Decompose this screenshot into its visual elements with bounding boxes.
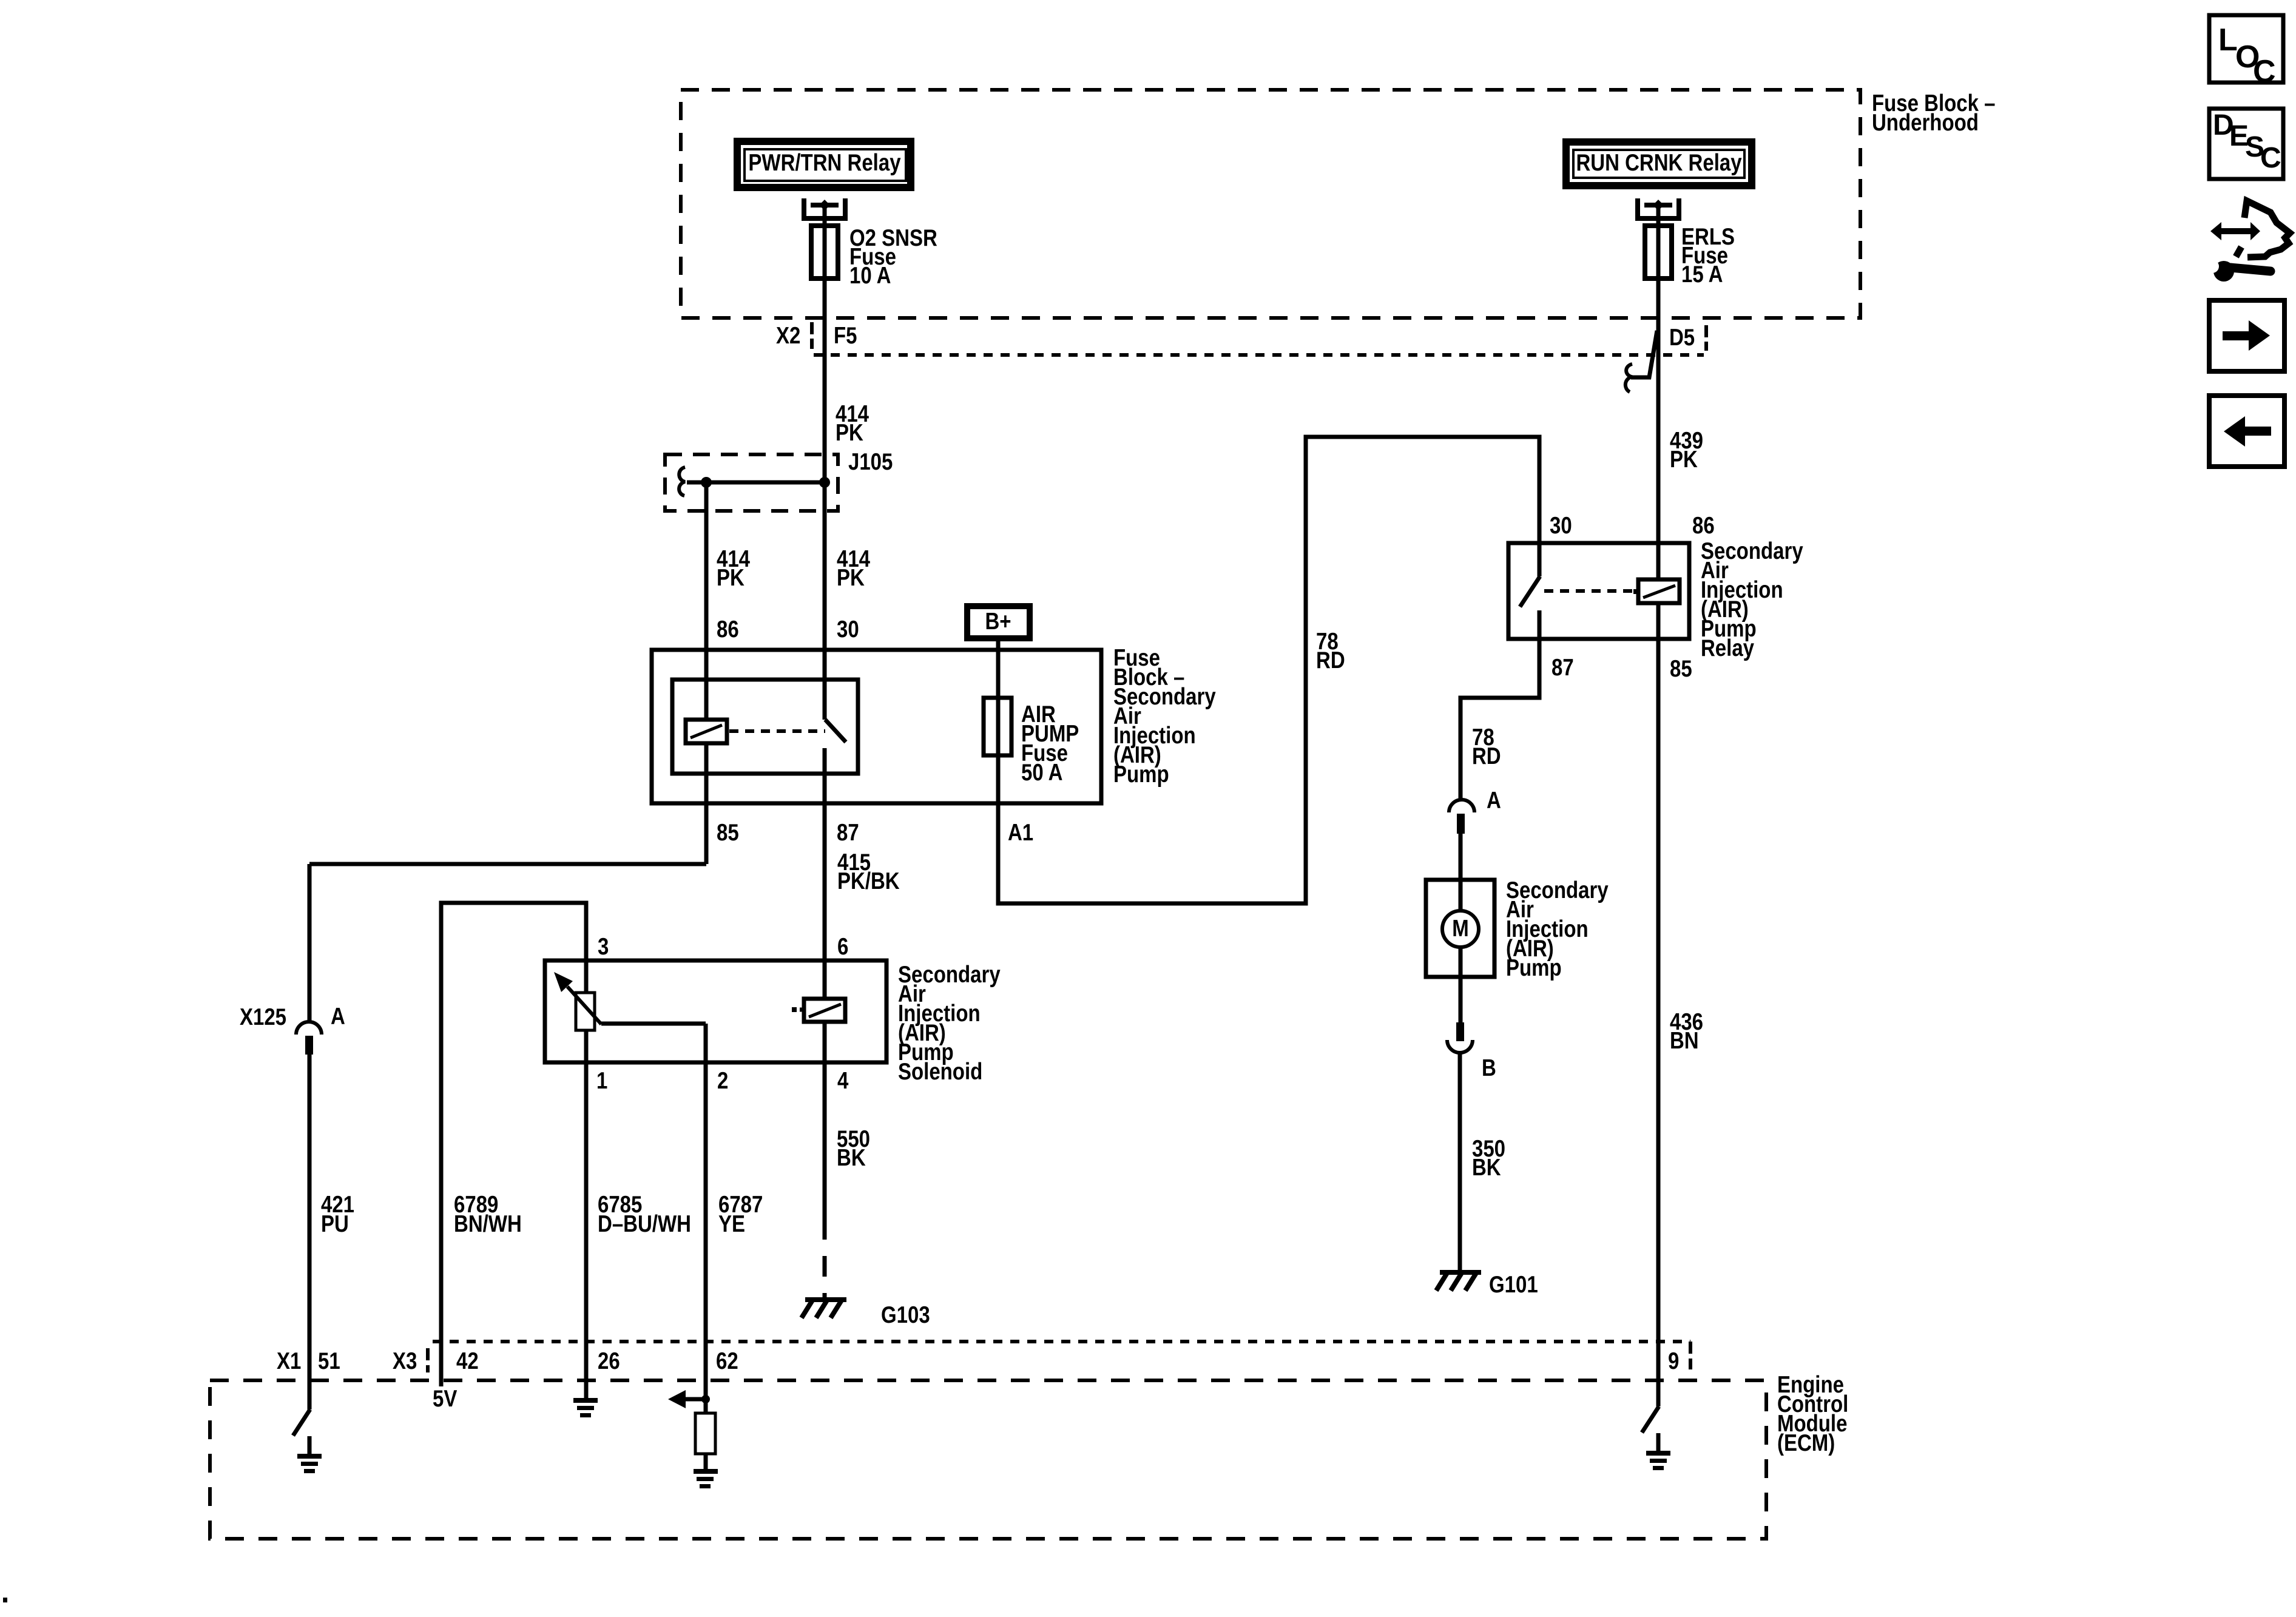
svg-text:F5: F5 <box>834 322 857 348</box>
svg-text:Pump: Pump <box>1113 760 1169 787</box>
svg-text:87: 87 <box>837 819 859 845</box>
svg-text:4: 4 <box>837 1067 848 1093</box>
svg-text:86: 86 <box>1692 511 1715 538</box>
svg-text:PWR/TRN Relay: PWR/TRN Relay <box>748 149 900 175</box>
svg-text:C: C <box>2253 54 2276 89</box>
svg-text:BK: BK <box>1472 1153 1501 1180</box>
svg-text:X3: X3 <box>393 1347 417 1374</box>
svg-text:RD: RD <box>1472 742 1501 769</box>
svg-text:5V: 5V <box>433 1385 457 1411</box>
svg-text:PK: PK <box>836 419 863 445</box>
svg-text:X1: X1 <box>277 1347 301 1374</box>
svg-text:10 A: 10 A <box>849 262 891 288</box>
svg-text:3: 3 <box>598 933 609 959</box>
svg-text:BN/WH: BN/WH <box>454 1210 522 1237</box>
svg-text:6: 6 <box>837 933 848 959</box>
svg-text:A: A <box>331 1002 345 1029</box>
svg-text:YE: YE <box>718 1210 745 1237</box>
svg-text:G103: G103 <box>881 1301 930 1328</box>
svg-text:PU: PU <box>321 1210 349 1237</box>
svg-text:85: 85 <box>1670 655 1692 681</box>
svg-text:51: 51 <box>318 1347 340 1374</box>
svg-text:15 A: 15 A <box>1681 260 1723 287</box>
svg-text:Solenoid: Solenoid <box>898 1058 982 1084</box>
svg-text:J105: J105 <box>848 448 893 474</box>
svg-text:PK: PK <box>837 564 865 590</box>
svg-text:RUN CRNK Relay: RUN CRNK Relay <box>1576 149 1741 175</box>
svg-text:2: 2 <box>717 1067 728 1093</box>
svg-text:62: 62 <box>716 1347 738 1374</box>
svg-text:RD: RD <box>1316 646 1345 673</box>
svg-text:PK: PK <box>1670 445 1698 472</box>
svg-text:BN: BN <box>1670 1027 1699 1053</box>
svg-text:X2: X2 <box>776 322 800 348</box>
svg-text:BK: BK <box>837 1144 866 1170</box>
svg-text:Underhood: Underhood <box>1872 109 1979 135</box>
svg-text:B: B <box>1482 1054 1496 1081</box>
svg-text:B+: B+ <box>985 607 1011 634</box>
svg-text:1: 1 <box>596 1067 607 1093</box>
svg-text:G101: G101 <box>1489 1271 1538 1297</box>
svg-text:86: 86 <box>717 615 739 642</box>
svg-text:X125: X125 <box>240 1003 286 1030</box>
svg-text:87: 87 <box>1551 653 1574 680</box>
svg-text:50 A: 50 A <box>1021 758 1062 785</box>
svg-text:L: L <box>2218 22 2238 58</box>
svg-text:D–BU/WH: D–BU/WH <box>598 1210 691 1237</box>
svg-text:D5: D5 <box>1669 323 1695 350</box>
svg-text:PK/BK: PK/BK <box>837 867 900 894</box>
svg-text:30: 30 <box>1550 511 1572 538</box>
svg-text:85: 85 <box>717 819 739 845</box>
svg-text:30: 30 <box>837 615 859 642</box>
svg-text:Pump: Pump <box>1506 954 1562 981</box>
svg-text:9: 9 <box>1668 1347 1679 1374</box>
svg-text:C: C <box>2260 142 2281 174</box>
svg-text:M: M <box>1452 914 1468 941</box>
svg-text:PK: PK <box>717 564 745 590</box>
svg-text:Relay: Relay <box>1701 634 1754 661</box>
svg-text:A1: A1 <box>1008 819 1033 845</box>
svg-text:A: A <box>1487 786 1501 813</box>
svg-text:42: 42 <box>456 1347 479 1374</box>
svg-text:26: 26 <box>598 1347 620 1374</box>
svg-text:(ECM): (ECM) <box>1777 1429 1835 1456</box>
